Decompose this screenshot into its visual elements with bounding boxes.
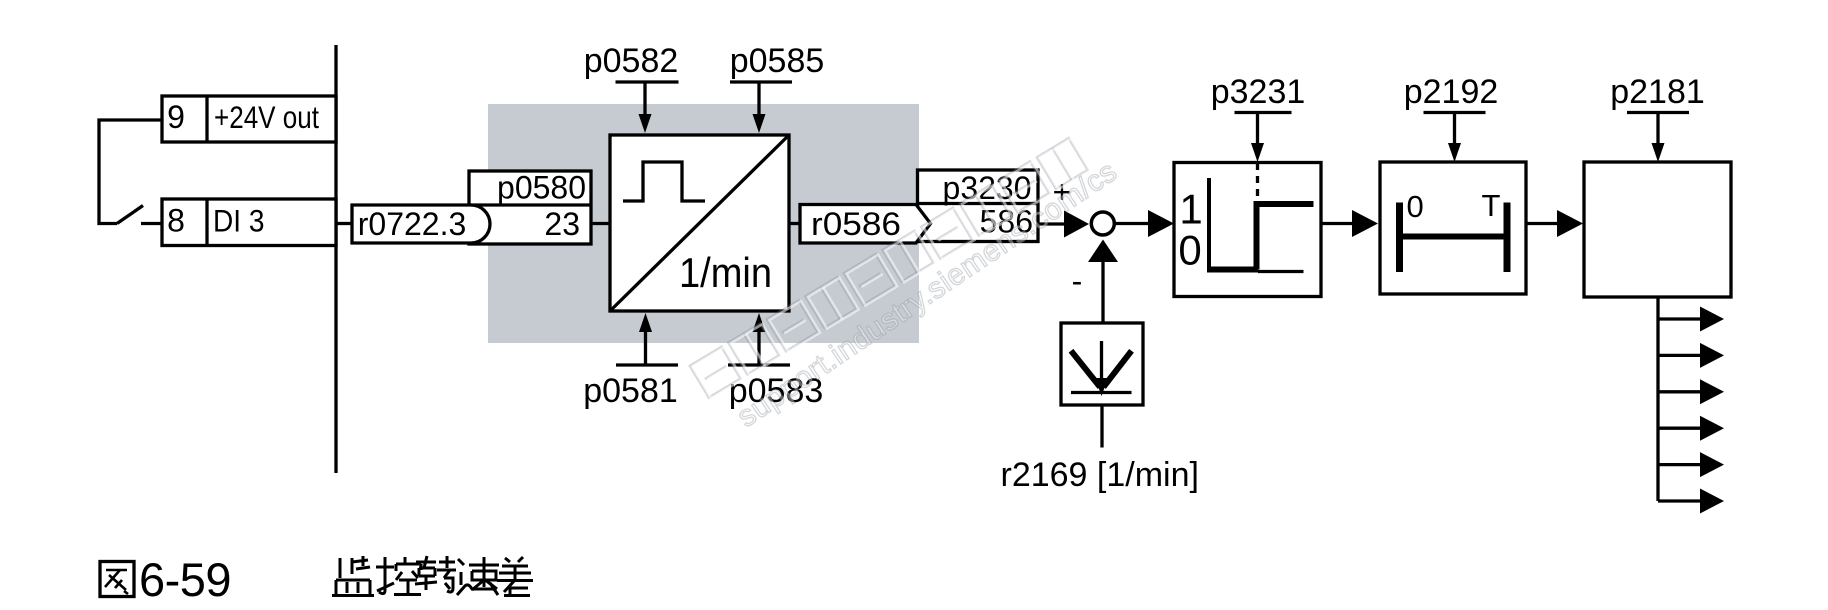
svg-text:1/min: 1/min — [679, 249, 772, 296]
svg-text:p2192: p2192 — [1404, 73, 1499, 111]
svg-text:p0580: p0580 — [497, 170, 586, 206]
svg-text:p3231: p3231 — [1211, 73, 1306, 111]
svg-text:0: 0 — [1178, 227, 1201, 274]
svg-text:-: - — [1072, 263, 1083, 299]
svg-text:r0722.3: r0722.3 — [358, 206, 467, 242]
svg-text:+24V out: +24V out — [214, 99, 319, 135]
svg-text:p0585: p0585 — [730, 42, 825, 80]
svg-text:8: 8 — [167, 203, 185, 239]
svg-text:T: T — [1482, 188, 1501, 223]
svg-text:0: 0 — [1407, 189, 1424, 224]
svg-text:r0586: r0586 — [811, 206, 901, 242]
svg-text:p0582: p0582 — [584, 42, 679, 80]
svg-text:p2181: p2181 — [1610, 73, 1705, 111]
svg-text:6-59: 6-59 — [139, 553, 231, 606]
svg-text:p0581: p0581 — [583, 372, 678, 410]
svg-text:r2169 [1/min]: r2169 [1/min] — [1001, 456, 1199, 494]
svg-text:DI 3: DI 3 — [213, 203, 265, 239]
svg-text:23: 23 — [544, 206, 580, 242]
svg-text:1: 1 — [1179, 186, 1202, 233]
svg-text:9: 9 — [167, 99, 185, 135]
